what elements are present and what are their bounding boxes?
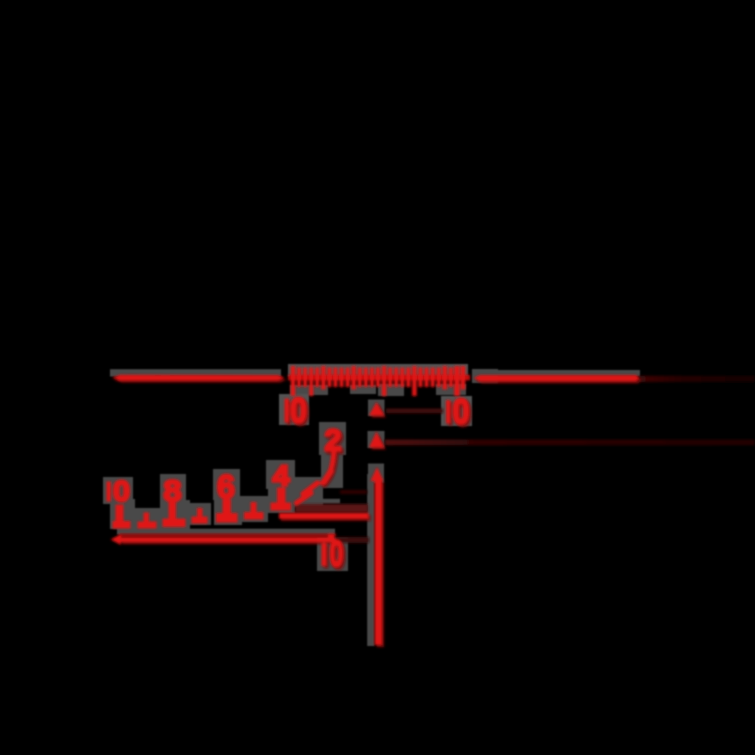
bottom label 10 bbox=[322, 543, 327, 566]
bevel of left crosshair bar bbox=[114, 377, 287, 383]
svg-text:0: 0 bbox=[330, 533, 344, 574]
half mark 5 bbox=[251, 502, 257, 513]
shadow of upper range line bbox=[294, 499, 340, 504]
right crosshair bar bbox=[474, 375, 640, 381]
shadow of T-mark under 10 bbox=[110, 499, 135, 529]
T-mark under 10 bbox=[116, 505, 124, 523]
vertical post arrowhead bbox=[371, 467, 384, 481]
half mark 7 bbox=[197, 508, 203, 518]
rangefinder baseline thin top edge bbox=[119, 534, 336, 537]
mil ruler center bar bbox=[288, 375, 470, 381]
faint stadia line from lower chevron to right edge bbox=[385, 440, 755, 446]
shadow of T-mark under 8 bbox=[160, 500, 190, 529]
baseline right end hook bbox=[328, 534, 334, 538]
shadow of T-mark under 6 bbox=[214, 498, 242, 525]
slash mark 3 bbox=[303, 483, 318, 494]
faint stadia line from upper chevron bbox=[386, 409, 443, 414]
svg-text:6: 6 bbox=[217, 468, 235, 505]
svg-text:0: 0 bbox=[453, 393, 470, 432]
numeral 2 curved tail bbox=[323, 451, 335, 483]
bevel of right label 10 bbox=[448, 402, 453, 426]
baseline left arrowhead bbox=[111, 534, 122, 545]
dark red upper range line bbox=[295, 504, 368, 513]
shadow of T-mark under 4 bbox=[268, 485, 295, 513]
bevel of lower chevron bbox=[371, 435, 386, 450]
vertical post bbox=[375, 480, 382, 645]
bevel of rangefinder baseline bbox=[122, 540, 337, 545]
T-mark under 6 bbox=[223, 500, 232, 516]
shadow of mil ruler bbox=[288, 364, 468, 377]
shadow of rangefinder number 8 bbox=[160, 474, 186, 503]
shadow of slash mark 3 bbox=[293, 477, 323, 507]
bevel of numeral 2 tail bbox=[325, 453, 337, 485]
shadow of rangefinder baseline bbox=[117, 529, 335, 535]
shadow of rangefinder number 10 bbox=[103, 477, 133, 504]
rangefinder number 10 bbox=[107, 482, 112, 502]
lower chevron aiming mark bbox=[369, 432, 384, 448]
shadow of right label 10 bbox=[441, 396, 472, 426]
shadow of lower chevron bbox=[368, 431, 385, 448]
mil ruler tick marks bbox=[291, 366, 466, 396]
svg-text:0: 0 bbox=[113, 476, 130, 508]
shadow of half mark 9 bbox=[134, 508, 160, 532]
faint ghost line left of vertical post bbox=[340, 490, 367, 494]
faint continuation of baseline bbox=[335, 537, 369, 543]
shadow of vertical post arrowhead bbox=[368, 464, 384, 484]
shadow of bottom label 10 bbox=[317, 538, 348, 571]
left label 10 bbox=[285, 399, 290, 423]
shadow of half mark 5 bbox=[240, 496, 268, 522]
left crosshair bar with arrow tips bbox=[112, 375, 285, 381]
shadow of numeral 2 and its tail bbox=[319, 422, 346, 455]
shadow of upper chevron bbox=[368, 400, 385, 417]
shadow of rangefinder number 6 bbox=[213, 469, 240, 500]
bevel of right crosshair bar bbox=[476, 377, 642, 383]
bevel of left label 10 bbox=[287, 401, 292, 425]
T-mark under 8 bbox=[169, 502, 177, 520]
faint fade right of crosshair bar bbox=[639, 376, 755, 382]
upper chevron aiming mark bbox=[369, 402, 384, 416]
svg-text:0: 0 bbox=[290, 392, 307, 431]
shadow of half mark 7 bbox=[188, 503, 211, 525]
bevel of bottom label 10 bbox=[324, 545, 329, 568]
T-mark under 4 bbox=[277, 488, 286, 505]
shadow of vertical post bbox=[367, 474, 374, 646]
shadow of rangefinder number 4 bbox=[266, 460, 295, 489]
upper range line bbox=[279, 513, 369, 519]
bevel of upper chevron bbox=[371, 404, 386, 418]
shadow of left label 10 bbox=[279, 394, 309, 425]
bevel of vertical post bbox=[377, 482, 384, 647]
right label 10 bbox=[446, 400, 451, 424]
half mark 9 bbox=[144, 513, 150, 524]
shadow of left crosshair bar bbox=[110, 369, 281, 376]
shadow of right crosshair bar bbox=[472, 370, 640, 377]
bevel of upper range line bbox=[281, 515, 371, 521]
rangefinder baseline bbox=[120, 537, 335, 542]
